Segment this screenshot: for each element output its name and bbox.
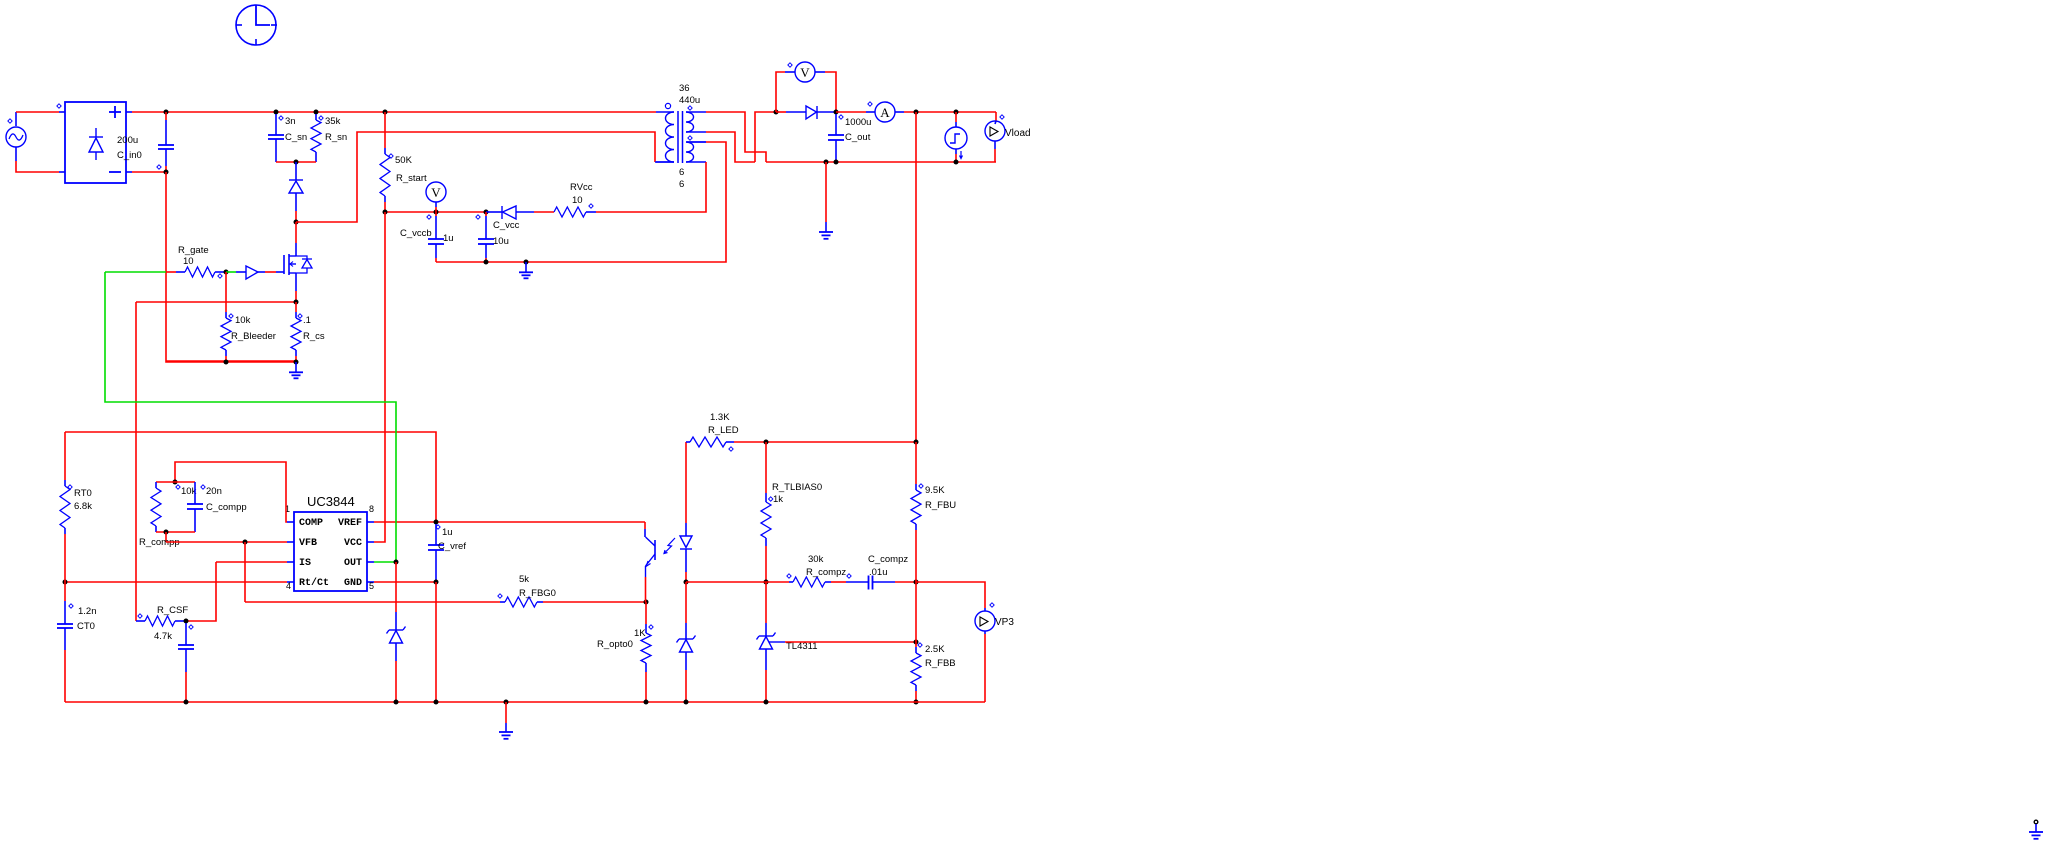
wire aux top to vcc gnd rail xyxy=(687,141,706,143)
svg-text:1u: 1u xyxy=(442,527,453,538)
svg-text:30k: 30k xyxy=(808,554,824,565)
svg-text:200u: 200u xyxy=(117,135,138,146)
transformer phase dot xyxy=(665,103,670,108)
node led-cathode xyxy=(684,580,689,585)
svg-text:V: V xyxy=(800,65,810,80)
node Cin-bottom xyxy=(164,170,169,175)
voltmeter V_vcc xyxy=(426,182,446,212)
wire sec1 bottom jog to diode xyxy=(706,132,755,162)
capacitor C_compz .01u xyxy=(846,576,895,590)
wire LED top xyxy=(685,442,687,523)
node opto-emitter xyxy=(644,600,649,605)
capacitor C_compp 20n xyxy=(187,482,203,532)
wire VCC supply row xyxy=(385,211,486,213)
label R_compp value xyxy=(176,485,180,489)
bridge rectifier BD1 xyxy=(65,102,132,183)
current step source I_load xyxy=(945,112,967,162)
svg-text:4.7k: 4.7k xyxy=(154,631,172,642)
svg-text:C_in0: C_in0 xyxy=(117,150,142,161)
svg-text:GND: GND xyxy=(344,578,362,589)
capacitor C_in0 200u xyxy=(158,112,174,172)
optocoupler U3 transistor xyxy=(645,529,655,577)
svg-text:6: 6 xyxy=(679,167,684,178)
wire stub bridge in1 xyxy=(59,111,65,113)
transistor Q1 MOSFET xyxy=(284,243,312,291)
wire RVcc to aux winding xyxy=(596,162,706,212)
optocoupler light arrow xyxy=(664,538,675,554)
wire output 0V rail xyxy=(766,161,996,163)
svg-text:RT0: RT0 xyxy=(74,488,92,499)
wire ac top xyxy=(16,111,59,113)
svg-text:R_gate: R_gate xyxy=(178,245,209,256)
node rtlbias-top xyxy=(764,440,769,445)
svg-text:R_FBU: R_FBU xyxy=(925,500,956,511)
wire bridge minus down to bleeder net xyxy=(166,172,296,362)
svg-text:1K: 1K xyxy=(634,628,646,639)
node fbu-top xyxy=(914,440,919,445)
svg-text:5: 5 xyxy=(369,581,374,591)
transformer TX1 primary xyxy=(656,112,674,162)
wire compp to VFB xyxy=(165,532,167,542)
capacitor C_CSF xyxy=(178,623,194,702)
capacitor CT0 1.2n xyxy=(57,582,73,702)
wire compz row xyxy=(686,581,789,583)
svg-text:8: 8 xyxy=(369,504,374,514)
wire opto emitter down xyxy=(645,577,647,602)
capacitor C_vref 1u xyxy=(428,524,444,580)
svg-text:50K: 50K xyxy=(395,155,413,166)
resistor R_CSF 4.7k xyxy=(136,616,186,626)
diode D_out xyxy=(776,106,836,119)
wire GND pin xyxy=(374,581,436,583)
voltage probe VP3 xyxy=(975,608,995,702)
svg-text:CT0: CT0 xyxy=(77,621,95,632)
label VP3 xyxy=(990,603,994,607)
wire vfb down xyxy=(244,542,246,602)
svg-text:R_sn: R_sn xyxy=(325,132,347,143)
resistor R_Bleeder 10k xyxy=(221,272,231,362)
svg-text:1k: 1k xyxy=(773,494,783,505)
node rail-ccsf xyxy=(184,700,189,705)
svg-text:IS: IS xyxy=(299,558,311,569)
svg-text:6.8k: 6.8k xyxy=(74,501,92,512)
svg-text:10: 10 xyxy=(183,256,194,267)
diode D_z2 zener xyxy=(677,582,696,702)
node rail-tl431 xyxy=(764,700,769,705)
wire buffer to gate xyxy=(258,271,265,273)
label R_CSF xyxy=(138,614,142,618)
wire compp bottom bar xyxy=(156,531,195,533)
node rail-cvref xyxy=(434,700,439,705)
svg-text:VREF: VREF xyxy=(338,518,362,529)
svg-text:.01u: .01u xyxy=(869,567,888,578)
label C_vcc xyxy=(476,215,480,219)
wire top rail dc+ xyxy=(132,111,656,113)
resistor R_FBU 9.5K xyxy=(911,442,921,582)
label C_sn xyxy=(279,116,283,120)
svg-text:2.5K: 2.5K xyxy=(925,644,945,655)
node cvcc xyxy=(484,210,489,215)
ground main xyxy=(505,702,507,723)
label C_out xyxy=(839,115,843,119)
node fbb-bot xyxy=(914,700,919,705)
wire RtCt xyxy=(65,581,287,583)
wire COMP loop xyxy=(175,462,287,522)
node rail-z1 xyxy=(394,700,399,705)
ammeter A_out xyxy=(836,102,996,122)
node dout-cathode xyxy=(834,110,839,115)
svg-text:V: V xyxy=(431,185,441,200)
svg-text:COMP: COMP xyxy=(299,518,323,529)
node istep-bot xyxy=(954,160,959,165)
wire VREF to RT0 xyxy=(65,432,436,522)
svg-text:10: 10 xyxy=(572,195,583,206)
label R_sn xyxy=(319,116,323,120)
svg-text:R_FBG0: R_FBG0 xyxy=(519,588,556,599)
wire bridge minus rail xyxy=(132,171,166,173)
svg-text:VCC: VCC xyxy=(344,538,362,549)
node rstart-bot xyxy=(383,210,388,215)
svg-text:1.3K: 1.3K xyxy=(710,412,730,423)
wire rcompz to ccompz xyxy=(831,581,846,583)
node gnd-pin xyxy=(434,580,439,585)
svg-text:10k: 10k xyxy=(235,315,251,326)
clock icon xyxy=(236,5,277,45)
transformer core xyxy=(677,111,679,163)
ic U1 UC3844 xyxy=(287,512,374,591)
wire ccompz to tap xyxy=(895,581,916,583)
resistor R_compp 10k xyxy=(151,482,161,532)
transformer TX1 secondary 1 xyxy=(686,112,706,132)
wire TL431 ref xyxy=(785,641,916,643)
resistor R_opto0 1k xyxy=(641,602,651,702)
svg-text:C_vccb: C_vccb xyxy=(400,228,432,239)
wire IS pin xyxy=(216,561,287,563)
node compp-bot xyxy=(164,530,169,535)
node bleeder-bot xyxy=(224,360,229,365)
ground isolated bottom-right xyxy=(2029,820,2043,839)
wire drain lead xyxy=(295,222,297,243)
voltmeter V_out xyxy=(776,62,836,112)
node snubber xyxy=(294,160,299,165)
node gate-in xyxy=(224,270,229,275)
node drain xyxy=(294,220,299,225)
resistor R_TLBIAS0 1k xyxy=(761,442,771,582)
svg-text:5k: 5k xyxy=(519,574,529,585)
label R_FBB xyxy=(918,643,922,647)
svg-text:1000u: 1000u xyxy=(845,117,871,128)
svg-text:R_CSF: R_CSF xyxy=(157,605,188,616)
label C_compp xyxy=(201,485,205,489)
svg-text:C_vcc: C_vcc xyxy=(493,220,520,231)
svg-text:20n: 20n xyxy=(206,486,222,497)
label C_vref xyxy=(436,525,440,529)
svg-text:35k: 35k xyxy=(325,116,341,127)
node rcs-bot xyxy=(294,360,299,365)
node rail-gnd xyxy=(504,700,509,705)
svg-text:UC3844: UC3844 xyxy=(307,494,355,509)
node out-zener xyxy=(394,560,399,565)
svg-text:36: 36 xyxy=(679,83,690,94)
svg-text:6: 6 xyxy=(679,179,684,190)
node cvcc-bot xyxy=(484,260,489,265)
capacitor C_out 1000u xyxy=(828,114,844,162)
resistor R_start 50K xyxy=(380,112,390,212)
svg-text:A: A xyxy=(880,105,890,120)
label RT0 xyxy=(68,485,72,489)
gate buffer U2 xyxy=(236,266,258,279)
svg-text:VFB: VFB xyxy=(299,538,317,549)
wire VP3 branch xyxy=(916,582,985,608)
wire drain to primary bottom xyxy=(296,132,655,222)
svg-text:R_cs: R_cs xyxy=(303,331,325,342)
svg-text:3n: 3n xyxy=(285,116,296,127)
node rail-Rsn xyxy=(314,110,319,115)
wire FBG0 to opto emitter xyxy=(543,601,646,603)
wire Dvcc to RVcc xyxy=(534,211,554,213)
capacitor C_vcc 10u xyxy=(478,212,494,262)
wire RLED to divider xyxy=(734,441,916,443)
label Vload xyxy=(1000,115,1004,119)
node cvref-top xyxy=(434,520,439,525)
resistor R_gate 10 xyxy=(166,267,226,277)
node rcsf xyxy=(184,619,189,624)
node dout-anode xyxy=(774,110,779,115)
label R_FBU xyxy=(919,484,923,488)
svg-text:OUT: OUT xyxy=(344,558,362,569)
ground under R_cs xyxy=(295,362,297,372)
node cout-bot xyxy=(834,160,839,165)
node rail-Cin xyxy=(164,110,169,115)
node compz-tap xyxy=(914,580,919,585)
wire VCC pin xyxy=(374,212,385,542)
resistor R_cs .1 xyxy=(291,302,301,362)
node gnd-out xyxy=(824,160,829,165)
node istep-top xyxy=(954,110,959,115)
shunt regulator TL4311 xyxy=(757,582,786,702)
label R_cs xyxy=(298,314,302,318)
svg-text:VP3: VP3 xyxy=(995,617,1014,628)
svg-text:RVcc: RVcc xyxy=(570,182,593,193)
wire VREF pin xyxy=(374,521,645,523)
node source xyxy=(294,300,299,305)
wire source to CS xyxy=(136,301,296,303)
ac voltage source VIN xyxy=(6,112,26,161)
svg-text:9.5K: 9.5K xyxy=(925,485,945,496)
resistor R_compz 30k xyxy=(787,574,851,587)
svg-text:C_compp: C_compp xyxy=(206,502,247,513)
wire snubber bottom xyxy=(276,161,316,163)
diode D_z1 zener on OUT xyxy=(387,562,406,702)
wire VFB net lower xyxy=(245,601,500,603)
node rail-Rstart xyxy=(383,110,388,115)
node fb-tap xyxy=(914,640,919,645)
wire divider mid xyxy=(915,582,917,642)
resistor RVcc 10 xyxy=(554,207,596,217)
svg-text:R_LED: R_LED xyxy=(708,425,739,436)
svg-text:1u: 1u xyxy=(443,233,454,244)
node tl431-k xyxy=(764,580,769,585)
resistor RT0 6.8k xyxy=(60,432,70,582)
transformer TX1 aux winding xyxy=(686,142,706,162)
resistor R_sn 35k xyxy=(311,114,321,162)
svg-text:R_compz: R_compz xyxy=(806,567,846,578)
capacitor C_vccb 1u xyxy=(428,212,444,262)
wire stub bridge in2 xyxy=(59,171,65,173)
resistor R_FBG0 5k xyxy=(498,594,543,607)
ground output xyxy=(825,162,827,222)
svg-text:Rt/Ct: Rt/Ct xyxy=(299,577,329,589)
diode D_vcc xyxy=(486,206,534,219)
wire IS jog xyxy=(186,562,216,621)
resistor R_LED 1.3K xyxy=(686,437,734,447)
wire OUT net green xyxy=(105,272,396,562)
node rail-z2 xyxy=(684,700,689,705)
node vout xyxy=(914,110,919,115)
node rail-Csn xyxy=(274,110,279,115)
wire feedback tap down xyxy=(915,112,917,442)
resistor R_FBB 2.5K xyxy=(911,642,921,702)
wire bleeder bottom xyxy=(166,360,296,362)
wire compp top bar xyxy=(156,481,195,483)
svg-text:R_TLBIAS0: R_TLBIAS0 xyxy=(772,482,822,493)
wire green stub buffer xyxy=(226,271,236,273)
wire bottom rail analog gnd xyxy=(65,701,985,703)
wire IS sense down xyxy=(135,302,137,620)
optocoupler U3 LED xyxy=(680,523,692,572)
voltage probe Vload xyxy=(985,112,1005,162)
svg-text:1.2n: 1.2n xyxy=(78,606,97,617)
svg-text:C_out: C_out xyxy=(845,132,871,143)
wire opto collector from VREF xyxy=(644,522,646,529)
node rt-ct xyxy=(63,580,68,585)
wire sec1 top jog to 0V rail xyxy=(706,112,766,162)
wire stub primary bottom xyxy=(655,161,674,163)
svg-text:C_compz: C_compz xyxy=(868,554,908,565)
svg-text:R_Bleeder: R_Bleeder xyxy=(231,331,276,342)
label R_Bleeder xyxy=(229,314,233,318)
svg-text:440u: 440u xyxy=(679,95,700,106)
svg-text:C_sn: C_sn xyxy=(285,132,307,143)
svg-text:Vload: Vload xyxy=(1005,128,1031,139)
wire ac bottom xyxy=(16,161,59,172)
svg-text:R_start: R_start xyxy=(396,173,427,184)
svg-text:10u: 10u xyxy=(493,236,509,247)
node compp-top xyxy=(173,480,178,485)
wire gnd down xyxy=(435,582,437,702)
wire OUT net green to gate xyxy=(105,271,166,273)
svg-text:R_opto0: R_opto0 xyxy=(597,639,633,650)
node vcc-gnd xyxy=(524,260,529,265)
svg-text:R_FBB: R_FBB xyxy=(925,658,956,669)
wire LED bottom xyxy=(685,572,687,582)
label CT0 xyxy=(69,604,73,608)
node vfb-tee xyxy=(243,540,248,545)
node rail-ropto xyxy=(644,700,649,705)
svg-text:C_vref: C_vref xyxy=(438,541,466,552)
label R_start xyxy=(389,154,393,158)
ground vcc xyxy=(525,262,527,272)
wire VFB xyxy=(166,541,287,543)
diode D_sn snubber xyxy=(289,162,303,211)
wire source lead xyxy=(295,291,297,302)
wire Dsn to drain node xyxy=(295,211,297,222)
capacitor C_sn 3n xyxy=(268,114,284,162)
svg-text:.1: .1 xyxy=(303,315,311,326)
node vccb xyxy=(434,210,439,215)
